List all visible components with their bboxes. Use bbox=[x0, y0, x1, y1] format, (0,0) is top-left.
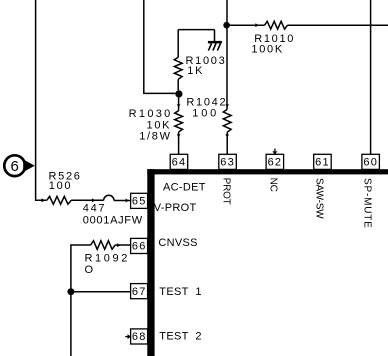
svg-text:O: O bbox=[85, 264, 95, 276]
svg-text:100: 100 bbox=[49, 180, 72, 192]
svg-text:61: 61 bbox=[315, 157, 330, 169]
svg-text:68: 68 bbox=[132, 331, 147, 343]
svg-text:65: 65 bbox=[132, 196, 147, 208]
svg-text:66: 66 bbox=[132, 241, 147, 253]
svg-text:1K: 1K bbox=[187, 65, 204, 77]
svg-text:64: 64 bbox=[172, 157, 187, 169]
svg-text:V-PROT: V-PROT bbox=[154, 202, 197, 214]
svg-text:PROT: PROT bbox=[221, 178, 232, 205]
svg-text:447: 447 bbox=[83, 203, 106, 215]
svg-text:NC: NC bbox=[268, 178, 279, 192]
svg-text:SAW-SW: SAW-SW bbox=[314, 178, 325, 219]
svg-text:67: 67 bbox=[132, 286, 147, 298]
svg-text:AC-DET: AC-DET bbox=[163, 182, 206, 194]
svg-text:SP-MUTE: SP-MUTE bbox=[362, 178, 373, 229]
svg-text:60: 60 bbox=[363, 157, 378, 169]
svg-text:CNVSS: CNVSS bbox=[158, 237, 197, 249]
svg-text:1/8W: 1/8W bbox=[139, 131, 171, 143]
svg-text:6: 6 bbox=[11, 158, 19, 175]
svg-text:TEST 2: TEST 2 bbox=[159, 330, 201, 342]
svg-text:0001AJFW: 0001AJFW bbox=[83, 214, 143, 226]
svg-text:63: 63 bbox=[220, 157, 235, 169]
svg-text:10K: 10K bbox=[147, 119, 172, 131]
svg-text:100: 100 bbox=[192, 108, 219, 120]
svg-text:TEST 1: TEST 1 bbox=[159, 286, 201, 298]
svg-text:R1092: R1092 bbox=[85, 252, 130, 264]
svg-text:62: 62 bbox=[268, 157, 283, 169]
svg-text:100K: 100K bbox=[251, 44, 284, 56]
